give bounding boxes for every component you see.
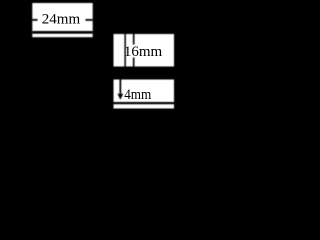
- svg-text:24mm: 24mm: [42, 12, 81, 28]
- 4mm label box (white): [114, 80, 175, 109]
- 24mm dimension dash left: [32, 19, 37, 21]
- 16mm label box (white): [114, 34, 175, 67]
- 4mm down-arrow shaft: [120, 80, 122, 94]
- device right edge line upper segment: [133, 34, 135, 45]
- svg-text:4mm: 4mm: [124, 86, 151, 103]
- device top edge line through 24mm box: [32, 31, 92, 34]
- device bottom edge line through 4mm box: [114, 102, 175, 104]
- 24mm label box (white): [32, 3, 92, 37]
- device right edge line lower segment: [133, 58, 135, 67]
- 4mm down-arrow head: [118, 94, 124, 100]
- 16mm vertical dimension line: [124, 34, 126, 67]
- svg-text:16mm: 16mm: [124, 44, 163, 60]
- 24mm dimension dash right: [86, 19, 93, 21]
